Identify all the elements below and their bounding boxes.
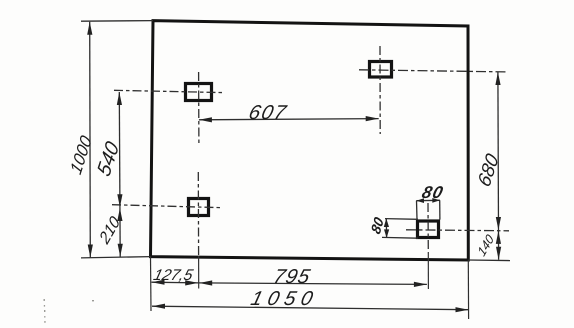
scan speckles	[44, 299, 95, 323]
svg-text:1050: 1050	[249, 288, 321, 310]
wire bottom edge left extension	[81, 257, 151, 258]
hole H3 lower-left square	[189, 199, 209, 216]
wire bottom edge right extension	[468, 259, 510, 262]
wire extension below H3 to chained dimension	[198, 256, 200, 289]
dimension line 127.5	[152, 280, 199, 286]
svg-text:795: 795	[271, 266, 313, 288]
centerline H4 horizontal	[406, 230, 509, 231]
plate outline	[151, 21, 469, 260]
svg-text:680: 680	[475, 150, 504, 190]
wire right edge bottom extension	[467, 260, 469, 319]
centerline H3 vertical	[197, 172, 199, 256]
wire extension below H4 to 795 dimension	[427, 252, 429, 289]
centerline H4 vertical	[427, 203, 429, 252]
dimension line 680 / 140 chained	[495, 72, 501, 260]
dimension line 80 left	[382, 218, 418, 238]
svg-text:1000: 1000	[66, 132, 96, 178]
hole H4 bottom-right square	[418, 221, 439, 238]
hole H2 top-right square	[370, 62, 392, 78]
dimension line 540 / 210 chained	[117, 92, 123, 257]
svg-text:80: 80	[368, 214, 387, 236]
wire left edge bottom extension	[150, 257, 153, 311]
svg-text:140: 140	[475, 232, 496, 259]
centerline H2 horizontal	[359, 70, 506, 72]
centerline H1 vertical	[198, 72, 200, 144]
wire top edge left extension	[81, 20, 153, 23]
centerline H3 horizontal	[112, 205, 220, 208]
dimension line 607	[199, 116, 379, 122]
svg-text:127,5: 127,5	[152, 267, 195, 284]
centerline H2 vertical	[379, 46, 381, 134]
centerline H1 horizontal	[114, 90, 224, 92]
dimension line 80 top	[416, 198, 440, 220]
dimension line 1000	[87, 22, 93, 258]
hole H1 upper-left square	[186, 84, 212, 101]
dimension line 795	[198, 280, 427, 287]
svg-text:607: 607	[246, 102, 289, 124]
svg-text:80: 80	[420, 182, 446, 202]
dimension line 1050	[152, 304, 469, 313]
